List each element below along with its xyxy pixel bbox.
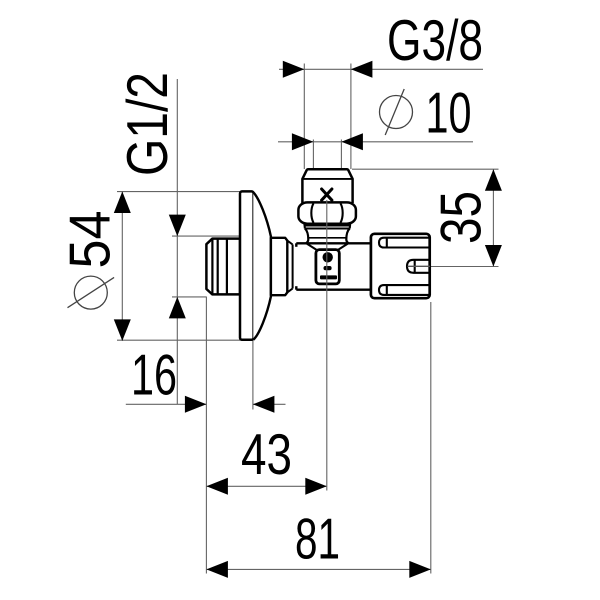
nut facet right bbox=[341, 203, 343, 222]
svg-text:54: 54 bbox=[59, 211, 123, 269]
ext line 35 top bbox=[352, 168, 499, 170]
ext line G1/2 bottom bbox=[172, 296, 206, 298]
arrow 35 top bbox=[485, 169, 502, 191]
body end face bbox=[292, 245, 294, 289]
arrow 43 right bbox=[305, 478, 327, 495]
svg-text:10: 10 bbox=[426, 82, 472, 146]
arrow dia54 top bbox=[114, 192, 131, 214]
dim 81 line bbox=[206, 568, 430, 570]
dim dia10 line bbox=[278, 141, 473, 143]
dim 35 vertical line bbox=[492, 169, 494, 266]
hex nut bbox=[298, 202, 356, 223]
handle bottom slot bbox=[379, 285, 430, 295]
ext line G1/2 top bbox=[172, 235, 239, 237]
dim G3/8 line bbox=[279, 68, 483, 70]
handle bbox=[371, 234, 430, 298]
arrow dia54 bottom bbox=[114, 319, 131, 341]
handle middle slot bbox=[407, 260, 430, 273]
arrow dia10 right bbox=[341, 133, 363, 150]
cap shoulder line bbox=[302, 178, 352, 180]
centerline of vertical fitting (over badge) bbox=[326, 200, 328, 491]
arrow 43 left bbox=[206, 478, 228, 495]
handle top slot bbox=[379, 238, 430, 248]
handle bottom slot chord bbox=[386, 285, 388, 295]
arrow G1/2 bottom bbox=[169, 297, 186, 319]
body boss slant left bbox=[306, 243, 316, 250]
svg-text:16: 16 bbox=[131, 344, 177, 408]
arrow G3/8 left bbox=[283, 61, 305, 78]
ext line 35 bottom (handle axis) bbox=[430, 266, 499, 268]
handle top slot chord bbox=[386, 238, 388, 248]
svg-text:35: 35 bbox=[430, 191, 494, 244]
svg-text:81: 81 bbox=[295, 508, 340, 572]
ext line dia10 right bbox=[340, 140, 342, 183]
arrow G1/2 top bbox=[169, 215, 186, 237]
collar chamfer bottom bbox=[287, 289, 292, 293]
ext line dia54 top bbox=[117, 191, 240, 193]
flange bell bbox=[253, 192, 271, 339]
ext line 81 right bbox=[430, 302, 432, 574]
svg-text:G1/2: G1/2 bbox=[116, 72, 180, 176]
collar bbox=[271, 238, 287, 295]
arrow 16 right bbox=[253, 396, 275, 413]
label dia54 symbol (rotated) bbox=[68, 276, 115, 309]
axis line from middle slot bbox=[408, 265, 431, 267]
wall flange plate bbox=[240, 191, 254, 339]
thread chamfer line bbox=[211, 239, 213, 295]
X mark on cap bbox=[322, 189, 332, 200]
ext line dia54 bottom bbox=[117, 339, 240, 341]
thread line 2 bbox=[226, 239, 228, 295]
badge on body bbox=[316, 250, 339, 284]
arrow G3/8 right bbox=[351, 61, 373, 78]
handle middle slot chord bbox=[414, 260, 416, 273]
arrow 81 left bbox=[206, 561, 228, 578]
ext line G3/8 left bbox=[303, 64, 305, 170]
nut facet left bbox=[311, 203, 313, 222]
collar chamfer top bbox=[287, 241, 292, 245]
ext line dia10 left bbox=[312, 140, 314, 183]
dim 16 line right part bbox=[253, 403, 286, 405]
ext line 16/43/81 shared left bbox=[205, 297, 207, 574]
arrow 35 bottom bbox=[485, 245, 502, 267]
compression cap bbox=[302, 169, 352, 203]
svg-text:G3/8: G3/8 bbox=[387, 9, 483, 73]
dim G1/2 vertical line bbox=[176, 79, 178, 404]
label dia10 symbol bbox=[380, 89, 413, 135]
body boss slant right bbox=[338, 243, 348, 250]
washer stack bbox=[304, 224, 350, 229]
thread line 1 bbox=[217, 239, 219, 295]
dim 43 line bbox=[206, 485, 326, 487]
arrow 16 left bbox=[185, 396, 207, 413]
valve body bbox=[296, 243, 371, 289]
ext line G3/8 right bbox=[350, 64, 352, 170]
arrow 81 right bbox=[409, 561, 431, 578]
arrow dia10 left bbox=[292, 133, 314, 150]
svg-text:43: 43 bbox=[241, 423, 292, 487]
G1/2 male thread bbox=[206, 239, 240, 295]
dim dia54 vertical line bbox=[121, 192, 123, 341]
skirt bbox=[305, 229, 350, 244]
ext line 16 right bbox=[252, 341, 254, 410]
dim 16 line left part bbox=[126, 403, 207, 405]
